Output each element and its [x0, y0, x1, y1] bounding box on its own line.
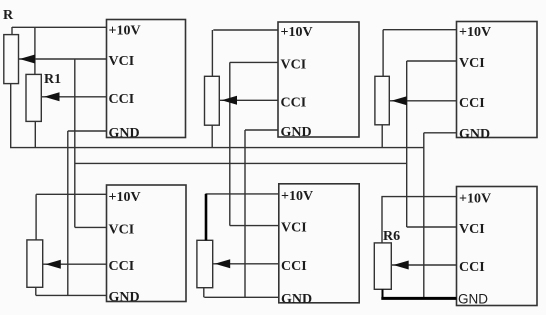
svg-text:GND: GND — [281, 292, 312, 307]
svg-text:+10V: +10V — [459, 192, 491, 207]
svg-text:CCI: CCI — [109, 259, 135, 274]
wire U2 +10V horizontal — [213, 29, 278, 31]
wire VCI chain U3 to U6 — [406, 61, 408, 227]
svg-text:VCI: VCI — [459, 56, 485, 71]
IC block U6 — [457, 187, 538, 306]
wire U3 +10V horizontal — [383, 29, 456, 31]
IC block U4 — [107, 185, 187, 302]
svg-text:VCI: VCI — [281, 221, 307, 236]
potentiometer R4 — [27, 240, 43, 287]
svg-text:R1: R1 — [44, 72, 61, 87]
wire U2 +10V down to R2 top — [211, 30, 213, 76]
wire U1 CCI to R1 wiper — [41, 96, 106, 98]
wire GND chain U3 to U6 — [423, 133, 425, 299]
wire VCI chain U2 to U5 — [229, 62, 231, 225]
svg-text:CCI: CCI — [459, 260, 485, 275]
arrow R4 wiper — [45, 260, 61, 269]
svg-text:+10V: +10V — [281, 189, 313, 204]
wire GND chain U2 to U5 — [244, 130, 246, 297]
wire U6 CCI to R6 wiper — [391, 264, 456, 266]
svg-text:CCI: CCI — [109, 92, 135, 107]
arrow R wiper — [20, 55, 36, 64]
wire U6 VCI horizontal — [407, 226, 457, 228]
potentiometer R2 — [205, 76, 220, 125]
svg-text:VCI: VCI — [281, 57, 307, 72]
IC block U1 — [107, 20, 186, 138]
wire R4 bottom to GND — [35, 287, 37, 295]
svg-text:GND: GND — [459, 127, 490, 142]
wire U3 +10V down to R3 top — [382, 30, 384, 77]
wire U5 +10V horizontal — [206, 193, 279, 195]
svg-text:CCI: CCI — [459, 96, 485, 111]
wire U2 GND horizontal — [245, 129, 278, 131]
arrow R2 wiper — [222, 96, 238, 105]
wire U2 CCI to R2 wiper — [219, 99, 278, 101]
svg-text:+10V: +10V — [109, 190, 141, 205]
svg-text:+10V: +10V — [109, 23, 141, 38]
wire U4 CCI to R4 wiper — [43, 263, 107, 265]
wire GND chain U1 to U4 — [67, 131, 69, 295]
svg-text:R: R — [3, 8, 14, 23]
arrow R6 wiper — [393, 261, 409, 270]
svg-text:GND: GND — [109, 126, 140, 141]
wire R6 bottom to GND — [382, 289, 384, 298]
svg-text:CCI: CCI — [281, 259, 307, 274]
potentiometer R5 — [197, 240, 213, 287]
svg-text:GND: GND — [109, 290, 140, 305]
svg-text:VCI: VCI — [459, 222, 485, 237]
wire R3 bottom to bus — [381, 125, 383, 148]
wire U4 VCI horizontal — [75, 226, 107, 228]
wire U1 +10V down to R top — [11, 27, 13, 35]
svg-text:GND: GND — [281, 125, 312, 140]
potentiometer R3 — [375, 76, 389, 125]
wire U5 +10V down to R5 top (thick) — [205, 194, 208, 240]
wire U3 CCI to R3 wiper — [389, 100, 456, 102]
arrow R3 wiper — [391, 96, 407, 105]
wire R bottom to bus — [10, 84, 12, 148]
svg-text:VCI: VCI — [109, 222, 135, 237]
potentiometer R — [4, 35, 19, 84]
wire U5 GND horizontal — [204, 296, 278, 298]
svg-text:+10V: +10V — [281, 25, 313, 40]
potentiometer R1 — [26, 74, 41, 121]
wire U4 +10V down to R4 top — [35, 194, 37, 240]
IC block U5 — [279, 184, 359, 303]
wire U3 VCI horizontal — [407, 60, 457, 62]
wire R5 bottom to GND — [203, 288, 205, 298]
svg-text:VCI: VCI — [109, 54, 135, 69]
svg-text:R6: R6 — [383, 229, 400, 244]
wire U1 +10V down to R1 top — [34, 27, 36, 74]
wire R1 bottom to bus — [34, 121, 36, 147]
wire U4 +10V horizontal — [36, 193, 106, 195]
wire U1 +10V horizontal — [12, 26, 107, 28]
wire U2 VCI horizontal — [230, 61, 278, 63]
wire U5 VCI horizontal — [230, 225, 279, 227]
wire VCI chain U1 to U4 — [74, 59, 76, 227]
bus VCI (horizontal) — [75, 162, 407, 164]
svg-text:CCI: CCI — [281, 95, 307, 110]
potentiometer R6 — [374, 243, 391, 289]
wire U3 GND horizontal — [424, 132, 457, 134]
arrow R5 wiper — [215, 259, 231, 268]
svg-text:+10V: +10V — [459, 25, 491, 40]
wire U1 GND horizontal — [68, 130, 107, 132]
wire U6 GND horizontal (thick) — [381, 297, 456, 300]
wire R2 bottom to bus — [211, 125, 213, 147]
wire U1 VCI to R wiper — [19, 58, 107, 60]
wire U6 +10V horizontal — [381, 196, 456, 198]
IC block U2 — [278, 22, 359, 137]
IC block U3 — [457, 22, 538, 138]
svg-text:GND: GND — [458, 291, 488, 306]
wire U4 GND horizontal — [36, 294, 107, 296]
bus pot-bottom/GND (horizontal) — [10, 147, 424, 149]
arrow R1 wiper — [44, 92, 60, 101]
wire U5 CCI to R5 wiper — [213, 263, 279, 265]
wire U6 +10V down to R6 top — [381, 197, 383, 243]
